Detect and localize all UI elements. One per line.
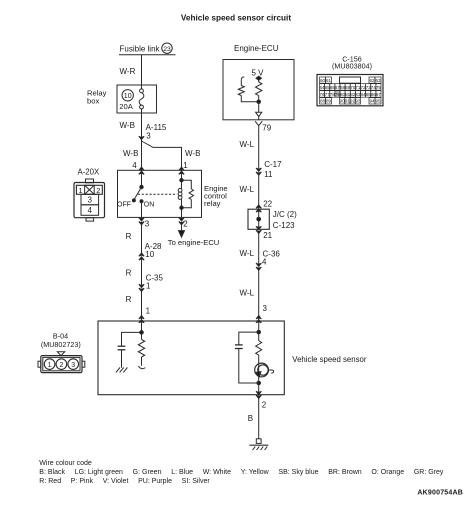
mechanical link (dashed) [138, 193, 177, 195]
wire W-L (C-36 to sensor) [240, 270, 268, 321]
svg-text:5 V: 5 V [252, 68, 265, 77]
wire split to relay pins [123, 140, 200, 171]
node pin 4 [132, 161, 144, 174]
wire R (A-28 to C-35) [126, 257, 142, 288]
svg-text:62: 62 [369, 78, 375, 83]
transistor (sensor output) [255, 363, 274, 377]
sensor left junction [122, 321, 144, 346]
fusible link 23 [119, 43, 176, 55]
svg-text:J/C (2): J/C (2) [273, 210, 297, 219]
engine control relay box [118, 170, 228, 217]
node sensor pin 3 [256, 316, 261, 323]
svg-text:1: 1 [48, 362, 52, 369]
svg-text:C-17: C-17 [264, 160, 282, 169]
node sensor pin 2 [256, 391, 267, 409]
svg-text:To engine-ECU: To engine-ECU [168, 238, 220, 247]
svg-text:2: 2 [59, 362, 63, 369]
svg-text:AK900754AB: AK900754AB [417, 490, 463, 497]
wire R (C-35 to sensor) [126, 292, 151, 322]
svg-text:W-L: W-L [240, 185, 255, 194]
svg-text:20A: 20A [119, 102, 133, 111]
svg-text:R: R [126, 295, 132, 304]
chassis ground (left) [116, 368, 128, 373]
wire to engine-ECU [168, 225, 220, 247]
svg-text:1: 1 [146, 281, 151, 290]
svg-text:Fusible link: Fusible link [120, 45, 161, 54]
capacitor (left) [118, 346, 126, 368]
svg-text:3: 3 [71, 362, 75, 369]
svg-text:60: 60 [320, 78, 326, 83]
svg-text:(MU803804): (MU803804) [332, 62, 372, 71]
relay switch [117, 170, 154, 217]
5V supply node [252, 68, 265, 82]
junction connector J/C (2) C-123 [248, 199, 297, 239]
svg-text:(MU802723): (MU802723) [41, 340, 81, 349]
svg-text:10: 10 [124, 93, 132, 100]
svg-text:1: 1 [183, 161, 188, 170]
resistor (sensor left) with hook [138, 340, 145, 369]
connector A-115 pin 3 [139, 123, 167, 140]
output port triangle [256, 112, 262, 116]
svg-text:B: Black LG: Light green: B: Black LG: Light green G: Green L: Blu… [39, 469, 444, 476]
relay box [87, 85, 157, 113]
connector A-20X [74, 168, 105, 221]
svg-text:93: 93 [355, 99, 361, 104]
svg-text:2: 2 [262, 401, 267, 410]
svg-text:4: 4 [132, 161, 137, 170]
svg-text:Vehicle speed sensor circuit: Vehicle speed sensor circuit [181, 14, 291, 23]
node pin 3 [139, 218, 150, 229]
junction node in ECU [257, 100, 261, 112]
svg-text:R: R [126, 232, 132, 241]
relay coil with parallel resistor [178, 170, 193, 217]
svg-text:W-B: W-B [120, 121, 135, 130]
Engine-ECU box [223, 44, 294, 120]
svg-text:Engine-ECU: Engine-ECU [234, 44, 279, 53]
sensor right junction [239, 321, 261, 345]
wire W-L (79 to C-17) [240, 126, 259, 169]
connector C-17 pin 11 [256, 160, 282, 179]
svg-text:10: 10 [145, 250, 154, 259]
resistor (sensor right) [256, 341, 262, 364]
fuse 10 20A [139, 85, 144, 113]
node pin 1 [179, 161, 189, 174]
connector A-28 pin 10 [139, 242, 162, 260]
svg-text:W-L: W-L [240, 140, 255, 149]
svg-text:4: 4 [262, 258, 267, 267]
connector C-156 (MU803804) [317, 54, 383, 105]
connector C-35 pin 1 [139, 273, 164, 291]
svg-text:W-L: W-L [240, 249, 255, 258]
svg-text:23: 23 [163, 46, 171, 53]
svg-text:63: 63 [375, 78, 381, 83]
svg-text:94: 94 [369, 99, 375, 104]
svg-text:R: Red P: Pink V: Viol: R: Red P: Pink V: Violet PU: Purple SI: … [39, 478, 210, 485]
svg-text:3: 3 [146, 132, 151, 141]
ground [249, 439, 268, 450]
connector C-36 pin 4 [256, 250, 280, 271]
node sensor pin 1 [139, 316, 144, 323]
resistor (pull-up) [256, 82, 262, 102]
svg-text:R: R [126, 268, 132, 277]
svg-text:relay: relay [204, 199, 221, 208]
svg-text:2: 2 [183, 219, 188, 228]
svg-text:W-B: W-B [123, 149, 138, 158]
connector B-04 (MU802723) [38, 331, 85, 372]
svg-text:W-L: W-L [240, 289, 255, 298]
svg-text:Wire colour code: Wire colour code [39, 460, 92, 467]
svg-text:95: 95 [375, 99, 381, 104]
svg-text:1: 1 [146, 306, 151, 315]
resistor (comparator leg) with hook [238, 77, 258, 102]
svg-text:W-B: W-B [185, 149, 200, 158]
svg-text:3: 3 [88, 196, 92, 205]
sensor bottom junction [257, 377, 261, 395]
svg-text:75: 75 [376, 85, 382, 90]
svg-text:87: 87 [376, 92, 382, 97]
wire W-L (C-17 to J/C) [240, 175, 259, 209]
wire W-R [120, 55, 142, 85]
svg-text:79: 79 [262, 124, 271, 133]
svg-text:3: 3 [145, 219, 150, 228]
node pin 2 [179, 218, 189, 229]
svg-text:B: B [248, 414, 253, 423]
svg-text:OFF: OFF [117, 201, 131, 208]
wire R (relay to A-28) [126, 225, 142, 253]
svg-text:89: 89 [326, 99, 332, 104]
svg-text:22: 22 [263, 199, 272, 208]
svg-text:Vehicle speed sensor: Vehicle speed sensor [292, 355, 367, 364]
svg-text:21: 21 [263, 231, 272, 240]
svg-text:W-R: W-R [120, 67, 136, 76]
wire colour code legend [39, 460, 444, 485]
capacitor (right) [235, 345, 259, 383]
pin 79 [255, 117, 272, 133]
svg-text:A-20X: A-20X [78, 168, 100, 177]
wire B (to ground) [248, 399, 259, 439]
svg-text:61: 61 [326, 78, 332, 83]
svg-text:4: 4 [88, 206, 93, 215]
wire W-B [120, 113, 142, 140]
svg-text:box: box [87, 96, 99, 105]
svg-text:C-123: C-123 [273, 221, 295, 230]
svg-text:ON: ON [144, 202, 155, 209]
wire W-L (J/C to C-36) [240, 234, 259, 264]
svg-text:3: 3 [263, 304, 268, 313]
svg-text:2: 2 [96, 186, 100, 195]
vehicle speed sensor box [98, 321, 367, 395]
svg-text:88: 88 [320, 99, 326, 104]
svg-text:11: 11 [264, 170, 273, 179]
svg-text:1: 1 [78, 186, 82, 195]
